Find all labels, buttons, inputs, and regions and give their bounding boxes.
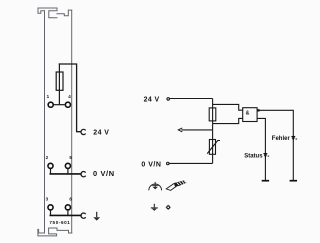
terminal 2 — [48, 163, 53, 168]
0V bus bar — [50, 173, 81, 175]
terminal 6 — [65, 205, 70, 210]
24V power-jumper contact arc — [81, 129, 85, 134]
wire tap above fuse to AND gate — [213, 104, 243, 110]
module bottom profile — [38, 228, 72, 236]
svg-text:Fehler: Fehler — [272, 136, 291, 142]
node 24V terminal circle — [167, 98, 170, 101]
svg-text:24 V: 24 V — [93, 129, 109, 136]
icon: earth via DIN rail (dome) — [149, 182, 162, 191]
svg-text:&: & — [246, 111, 250, 117]
svg-text:0 V/N: 0 V/N — [93, 169, 115, 178]
AND gate U1 — [243, 108, 257, 122]
wire 24V to fuse — [170, 98, 213, 100]
wire terminals 2/5 to 0V bus — [51, 169, 68, 174]
wire fuse top to 24V tap — [59, 64, 81, 132]
terminal 3 — [48, 205, 53, 210]
internal bus signal arrow — [181, 129, 212, 131]
node 0V/N terminal circle — [167, 162, 170, 165]
output junction dot — [257, 109, 259, 111]
module right edge — [71, 10, 73, 233]
wire terminal 1-4 — [54, 104, 65, 106]
module top profile — [38, 8, 72, 18]
icon: arrow onto rail — [151, 204, 158, 208]
earth bus bar — [50, 214, 81, 216]
icon: screw head — [166, 205, 171, 210]
Fehler LED — [291, 137, 297, 141]
terminal 4 — [65, 102, 70, 107]
icon: screwdriver tool — [166, 180, 186, 190]
terminal 1 — [48, 102, 53, 107]
main vertical wire — [212, 99, 214, 164]
wire AND to Status LED — [257, 118, 265, 180]
varistor RV1 — [207, 140, 220, 155]
fuse F2 (schematic) — [209, 108, 216, 121]
terminal 5 — [65, 163, 70, 168]
wire tap below fuse to AND gate — [213, 118, 243, 123]
wire terminals 3/6 to earth bus — [51, 211, 68, 216]
Status LED — [264, 154, 270, 158]
svg-text:24 V: 24 V — [144, 96, 160, 103]
ground Status — [262, 180, 269, 182]
wire AND output to Fehler LED — [257, 110, 293, 180]
earth arrow symbol — [96, 212, 98, 217]
svg-text:750-601: 750-601 — [49, 220, 70, 225]
0V power-jumper contact arc — [81, 172, 85, 177]
module left edge — [44, 11, 46, 233]
svg-text:Status: Status — [244, 153, 263, 159]
svg-text:0 V/N: 0 V/N — [141, 161, 161, 168]
wire 0V/N to varistor — [169, 162, 212, 164]
earth power-jumper contact arc — [81, 213, 85, 218]
ground Fehler — [290, 180, 297, 182]
module outline group — [38, 8, 72, 236]
fuse F1 (module internal) — [56, 64, 63, 104]
